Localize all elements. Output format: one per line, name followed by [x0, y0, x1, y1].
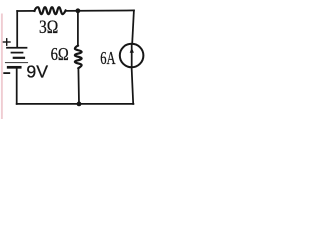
svg-text:6A: 6A	[100, 48, 115, 68]
svg-text:9V: 9V	[26, 61, 48, 81]
svg-text:3Ω: 3Ω	[39, 18, 58, 38]
svg-text:6Ω: 6Ω	[51, 44, 69, 64]
